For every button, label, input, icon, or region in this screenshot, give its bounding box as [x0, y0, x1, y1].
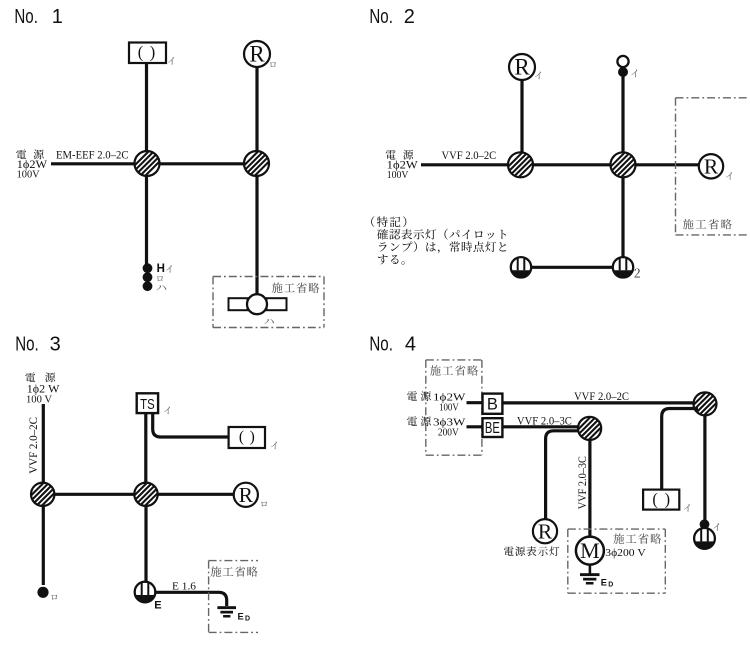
source feed wire (panel2)	[421, 163, 699, 166]
switch dot イ (panel4)	[700, 519, 710, 529]
lamp receptacle R ロ (panel3)	[234, 483, 258, 507]
label イ (panel1 box)	[168, 57, 174, 65]
cable label EM-EEF 2.0-2C	[56, 150, 129, 162]
wire TS to box イ (panel3)	[153, 413, 229, 437]
wire motor to ground	[589, 565, 592, 574]
pilot lamp open circle	[617, 56, 628, 67]
text 施工省略 (panel1)	[272, 283, 320, 293]
junction box J5 (panel3)	[21, 483, 65, 506]
junction box J8 (panel4)	[683, 392, 727, 415]
text 施工省略 (panel4 motor)	[613, 533, 661, 543]
svg-text:(: (	[239, 429, 244, 446]
lamp receptacle R ロ (panel1)	[244, 41, 270, 67]
device box イ (panel1)	[129, 42, 166, 63]
text 施工省略 (panel3)	[210, 566, 257, 576]
cable label E 1.6	[172, 580, 197, 592]
wire J8 branch to box イ	[662, 409, 698, 491]
title No.3	[15, 333, 61, 355]
wire J6 down to switch E	[144, 506, 147, 584]
svg-text:E: E	[601, 578, 607, 588]
label イ (panel2 R right)	[726, 172, 732, 180]
lamp receptacle R イ (panel2)	[509, 54, 535, 80]
source label 電源1φ2W 100V (panel4)	[407, 391, 466, 413]
svg-text:R: R	[704, 154, 719, 178]
label E (switch)	[154, 600, 161, 612]
pendant dot ロ	[143, 272, 153, 282]
label 2 (switch)	[635, 269, 640, 278]
label ロ (panel3 R)	[261, 502, 267, 507]
wire from box イ to junction J1	[145, 62, 148, 165]
svg-text:R: R	[538, 519, 553, 543]
dashed box 施工省略 (panel2)	[676, 98, 749, 235]
switch E (panel3)	[135, 582, 156, 603]
lamp receptacle R 電源表示灯 (panel4)	[533, 519, 557, 543]
stub wire to breaker B	[467, 401, 484, 404]
breaker BE box	[483, 418, 503, 437]
wire lamp R イ to junction J3	[520, 79, 523, 166]
wire J2 down to ceiling light	[255, 165, 258, 296]
cable label VVF 2.0-3C vertical (panel4)	[577, 456, 589, 509]
lamp receptacle R イ right (panel2)	[699, 154, 723, 178]
svg-text:200V: 200V	[438, 426, 459, 438]
text 施工省略 (panel4 source)	[430, 365, 478, 375]
svg-text:VVF 2.0–2C: VVF 2.0–2C	[28, 417, 40, 474]
svg-text:EM-EEF 2.0–2C: EM-EEF 2.0–2C	[56, 150, 129, 162]
pendant dot ハ	[143, 281, 153, 291]
title No.1	[14, 6, 62, 28]
label 3φ200V (motor)	[605, 547, 646, 559]
svg-text:3ϕ200 V: 3ϕ200 V	[605, 547, 646, 559]
dashed box 施工省略 motor (panel4)	[568, 529, 666, 593]
label ED (panel3)	[238, 611, 251, 622]
device box イ (panel4)	[643, 489, 679, 509]
label ロ (dots)	[157, 276, 163, 281]
timer switch TS box	[137, 393, 158, 413]
svg-text:B: B	[487, 395, 498, 413]
wire J8 down to switch イ	[703, 415, 706, 525]
svg-text:): )	[150, 42, 155, 61]
svg-text:No.: No.	[369, 6, 393, 28]
svg-text:No.: No.	[369, 333, 393, 355]
label ロ (panel1 R)	[270, 62, 276, 67]
note 特記 line3	[379, 241, 506, 253]
junction box J3 (panel2)	[498, 152, 544, 177]
cable label VVF 2.0-2C (panel2)	[442, 150, 497, 162]
label イ (TS)	[164, 407, 170, 415]
label ロ (panel3 dot)	[51, 595, 57, 600]
ground ED (panel4)	[580, 573, 600, 584]
svg-text:3: 3	[50, 333, 61, 355]
svg-text:H: H	[157, 263, 165, 275]
switch イ bottom (panel4)	[694, 528, 715, 549]
svg-text:100V: 100V	[17, 169, 40, 181]
breaker B box	[483, 394, 503, 414]
switch 2 right (panel2)	[613, 257, 633, 277]
svg-text:No.: No.	[14, 6, 38, 28]
label ED (panel4)	[601, 578, 614, 589]
ceiling light ハ (panel1)	[229, 294, 287, 314]
label ハ (ceiling light)	[264, 319, 274, 324]
junction box J6 (panel3)	[124, 483, 168, 506]
svg-text:VVF 2.0–3C: VVF 2.0–3C	[577, 456, 589, 509]
pendant dot イ	[143, 263, 153, 273]
svg-text:No.: No.	[15, 333, 39, 355]
device box イ (panel3)	[229, 427, 265, 448]
label イ (panel4 box)	[684, 504, 690, 512]
dashed box 施工省略 (panel1)	[213, 277, 324, 328]
svg-text:R: R	[249, 42, 265, 67]
svg-text:100V: 100V	[439, 401, 459, 413]
label H イ	[157, 263, 172, 275]
source feed wire down (panel3)	[42, 404, 45, 585]
svg-text:R: R	[239, 483, 254, 507]
svg-text:(: (	[652, 489, 657, 508]
svg-text:BE: BE	[485, 420, 500, 437]
label 電源表示灯	[504, 546, 559, 556]
wire J5 to J6 and R ロ	[54, 493, 235, 496]
wire BE to junction J7	[502, 425, 580, 428]
svg-text:E: E	[238, 611, 244, 621]
dashed box 施工省略 source (panel4)	[426, 360, 482, 455]
note 特記 line2	[377, 229, 506, 240]
junction box J7 (panel4)	[568, 417, 612, 440]
svg-text:R: R	[514, 55, 530, 80]
svg-text:2: 2	[404, 6, 415, 28]
svg-text:1: 1	[52, 6, 63, 28]
cable label VVF 2.0-3C (panel4)	[517, 415, 572, 427]
wire between switches (panel2)	[525, 266, 620, 269]
title No.4	[369, 333, 416, 355]
source feed wire (panel1)	[51, 162, 250, 165]
svg-text:E: E	[154, 600, 161, 612]
wire end dot ロ (panel3)	[37, 587, 48, 598]
wire from lamp R ロ to junction J2	[255, 66, 258, 165]
svg-text:100 V: 100 V	[26, 394, 52, 406]
switch dot イ (panel2)	[618, 67, 628, 77]
label イ (panel3 box)	[271, 442, 277, 450]
motor M (panel4)	[576, 537, 604, 565]
svg-text:VVF 2.0–2C: VVF 2.0–2C	[442, 150, 497, 162]
source label 電源 1φ2W 100V (panel3)	[25, 372, 60, 405]
svg-text:M: M	[580, 538, 600, 563]
dashed box 施工省略 (panel3)	[209, 561, 258, 633]
stub wire to breaker BE	[467, 425, 484, 428]
wire switch E to ground	[155, 592, 227, 606]
svg-text:): )	[665, 489, 670, 508]
wire J7 down to motor M	[588, 440, 591, 538]
text 施工省略 (panel2)	[683, 219, 732, 229]
note 特記 line1	[371, 216, 406, 227]
wire pilot lamp to junction J4	[621, 75, 624, 166]
label イ (panel2 R left)	[535, 72, 541, 80]
svg-text:VVF 2.0–3C: VVF 2.0–3C	[517, 415, 572, 427]
svg-text:VVF 2.0–2C: VVF 2.0–2C	[574, 391, 629, 403]
cable label VVF 2.0-2C (panel4)	[574, 391, 629, 403]
svg-text:E 1.6: E 1.6	[172, 580, 197, 592]
label イ (panel4 dot)	[713, 523, 719, 531]
ground ED (panel3)	[217, 606, 236, 617]
wire J4 down to switch 2	[621, 177, 624, 260]
wire B to junction J8	[502, 401, 694, 404]
note 特記 line4	[378, 255, 405, 265]
title No.2	[369, 6, 414, 28]
junction box J2 (panel1)	[234, 151, 280, 176]
svg-text:TS: TS	[140, 396, 155, 413]
svg-text:100V: 100V	[387, 169, 409, 181]
svg-text:D: D	[608, 582, 613, 589]
switch イ left (panel2)	[511, 257, 531, 277]
svg-text:): )	[250, 429, 255, 446]
source label 電源3φ3W 200V (panel4)	[407, 416, 466, 438]
wire J7 branch to lamp R	[546, 431, 584, 520]
wire J1 down to pendant dots	[145, 165, 148, 265]
source label 電源 1φ2W 100V (panel1)	[16, 149, 47, 180]
label ハ (dots)	[157, 285, 167, 290]
junction box J4 (panel2)	[600, 152, 646, 177]
junction box J1 (panel1)	[124, 151, 170, 176]
label イ (panel2 pilot)	[631, 70, 637, 78]
svg-text:(: (	[138, 42, 143, 61]
cable label VVF 2.0-2C vertical (panel3)	[28, 417, 40, 474]
wire TS to J6	[144, 413, 147, 485]
source label 電源 1φ2W 100V (panel2)	[386, 150, 418, 181]
svg-text:4: 4	[405, 333, 416, 355]
svg-text:D: D	[245, 615, 250, 622]
